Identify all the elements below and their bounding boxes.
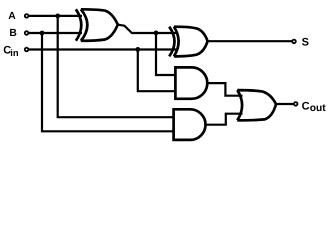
svg-text:B: B: [9, 28, 16, 39]
svg-text:A: A: [8, 11, 16, 22]
svg-text:C: C: [302, 101, 310, 113]
svg-text:out: out: [310, 103, 326, 114]
svg-text:S: S: [302, 37, 309, 49]
svg-text:in: in: [10, 47, 19, 58]
